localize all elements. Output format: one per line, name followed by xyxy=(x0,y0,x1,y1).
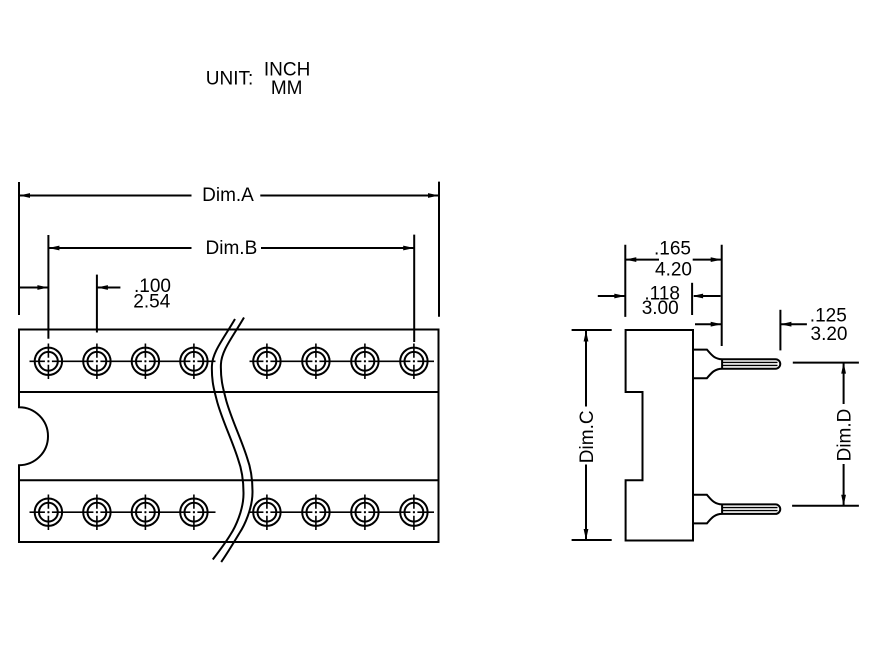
svg-text:Dim.D: Dim.D xyxy=(835,409,856,462)
svg-text:MM: MM xyxy=(271,78,303,99)
svg-text:.165: .165 xyxy=(654,239,691,260)
svg-text:2.54: 2.54 xyxy=(133,292,170,313)
svg-text:4.20: 4.20 xyxy=(655,259,692,280)
svg-text:Dim.B: Dim.B xyxy=(206,238,258,259)
svg-text:3.00: 3.00 xyxy=(642,298,679,319)
svg-text:Dim.C: Dim.C xyxy=(577,410,598,463)
svg-text:3.20: 3.20 xyxy=(811,324,848,345)
svg-text:UNIT:: UNIT: xyxy=(206,69,254,90)
svg-text:Dim.A: Dim.A xyxy=(202,185,254,206)
